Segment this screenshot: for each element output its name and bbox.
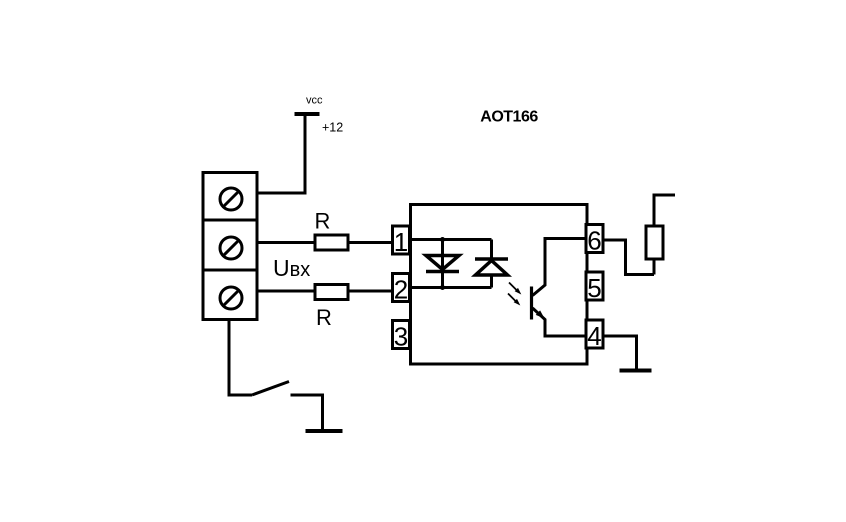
wire pin6 to R3 — [603, 240, 654, 275]
ground (right) — [620, 369, 652, 373]
wire R3 to supply stub — [654, 195, 675, 226]
pin 2 — [393, 274, 410, 305]
svg-text:5: 5 — [587, 273, 601, 303]
svg-text:1: 1 — [394, 227, 408, 257]
svg-text:vcc: vcc — [306, 95, 323, 107]
screw terminal 2 — [220, 237, 242, 259]
pin 3 — [393, 321, 410, 352]
resistor R1 — [315, 235, 348, 250]
svg-text:+12: +12 — [322, 121, 343, 135]
ground (left) — [306, 429, 343, 433]
LED D1 (down-pointing) — [426, 256, 459, 272]
wire pin2 to LED cathode rail — [410, 286, 492, 289]
node junction bottom — [440, 285, 445, 290]
svg-text:R: R — [316, 305, 332, 330]
wire pin1 to LED anode rail — [410, 238, 492, 241]
light arrow 1 — [509, 283, 521, 295]
wire R1 to pin1 — [348, 241, 394, 244]
svg-text:2: 2 — [394, 275, 408, 305]
svg-text:3: 3 — [394, 322, 408, 352]
resistor R3 lead bottom — [653, 259, 656, 275]
svg-text:6: 6 — [587, 226, 601, 256]
wire R2 to pin2 — [348, 290, 394, 293]
VCC power symbol — [295, 112, 320, 116]
switch S1 blade — [252, 382, 289, 396]
Q1 emitter — [533, 308, 587, 336]
pin 5 — [586, 272, 603, 303]
Q1 collector — [533, 239, 587, 296]
wire terminal2 to R1 — [257, 241, 315, 244]
wire switch to ground — [291, 395, 323, 430]
LED D2 (up-pointing) — [475, 259, 508, 275]
pin 6 — [586, 225, 603, 256]
resistor R2 — [315, 285, 348, 300]
wire terminal3 to R2 — [257, 290, 315, 293]
optocoupler U1 body — [411, 205, 588, 365]
phototransistor Q1 base bar — [530, 287, 533, 320]
pin 1 — [393, 226, 410, 257]
wire pin4 to ground — [603, 336, 637, 370]
Q1 emitter arrowhead — [536, 310, 545, 318]
screw terminal 3 — [220, 287, 242, 309]
light arrow 2 — [508, 294, 520, 306]
wire terminal3 bottom to switch — [229, 320, 252, 396]
pin 4 — [586, 320, 603, 351]
svg-text:Uвх: Uвх — [273, 255, 310, 281]
svg-text:4: 4 — [587, 321, 601, 351]
screw terminal 1 — [220, 188, 242, 210]
svg-text:AOT166: AOT166 — [480, 109, 538, 126]
wire left diode branch — [441, 240, 444, 288]
resistor R3 — [646, 226, 663, 259]
wire right diode branch — [490, 240, 493, 260]
svg-text:R: R — [315, 209, 331, 234]
node junction top — [440, 237, 445, 242]
terminal block X1 — [203, 173, 257, 320]
wire terminal1 to VCC — [257, 114, 305, 193]
